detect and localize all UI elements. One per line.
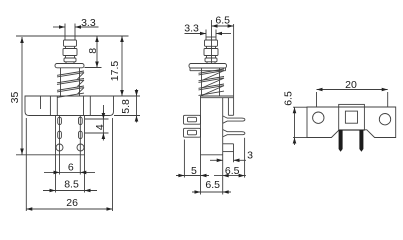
svg-text:3.3: 3.3 [184, 22, 199, 34]
svg-text:3.3: 3.3 [81, 17, 96, 29]
svg-text:8: 8 [87, 48, 99, 54]
svg-text:35: 35 [9, 92, 21, 104]
svg-text:3: 3 [247, 149, 253, 161]
svg-text:6.5: 6.5 [215, 14, 230, 26]
svg-text:6.5: 6.5 [225, 165, 240, 177]
svg-text:5: 5 [191, 165, 197, 177]
svg-text:5.8: 5.8 [120, 99, 132, 114]
svg-text:20: 20 [345, 79, 357, 91]
svg-text:6.5: 6.5 [205, 179, 220, 191]
svg-text:6: 6 [68, 161, 74, 173]
svg-text:26: 26 [66, 197, 78, 209]
svg-text:6.5: 6.5 [282, 91, 294, 106]
svg-text:8.5: 8.5 [64, 179, 79, 191]
svg-text:17.5: 17.5 [109, 61, 121, 82]
svg-text:4: 4 [94, 124, 106, 130]
